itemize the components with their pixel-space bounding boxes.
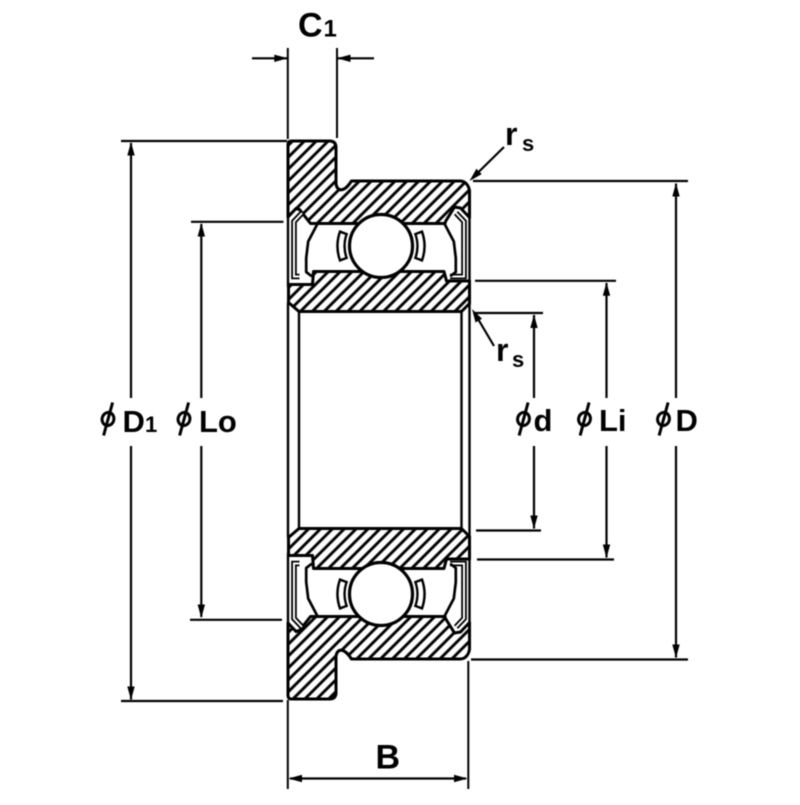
- cage pocket arc (bottom right): [418, 580, 421, 609]
- svg-text:s: s: [512, 347, 524, 372]
- ball (bottom): [350, 563, 413, 626]
- svg-text:Li: Li: [599, 403, 627, 438]
- phi-Lo extension lines: [191, 221, 284, 223]
- inner ring section (bottom): [289, 529, 470, 569]
- inner ring section (top): [289, 272, 470, 312]
- bore projection line: left chamfer circle: [298, 312, 300, 529]
- svg-text:r: r: [505, 116, 517, 152]
- phi-Lo dimension line + arrows: [200, 224, 202, 398]
- phi-Lo label: [177, 403, 192, 436]
- svg-text:Lo: Lo: [199, 404, 237, 439]
- cage profile (top left): [306, 224, 317, 276]
- svg-text:C: C: [298, 7, 323, 45]
- cage profile (bottom left): [306, 564, 317, 617]
- phi-D1 label: [101, 403, 116, 436]
- shield (bottom right): [450, 564, 464, 628]
- phi-D label: [656, 403, 671, 436]
- phi-Li label: [577, 403, 592, 436]
- svg-text:D: D: [123, 404, 145, 439]
- outer ring section (bottom) with flange: [288, 608, 470, 699]
- shield (top left): [294, 213, 302, 277]
- phi-Li extension lines: [475, 280, 616, 282]
- cage profile (bottom right): [445, 564, 456, 617]
- outer ring section (top) with flange: [288, 141, 470, 232]
- phi-d extension lines: [475, 312, 543, 314]
- face line segments (left, top bearing): [287, 215, 289, 287]
- B dimension line + arrows: [290, 777, 466, 779]
- cage pocket arc (top right): [418, 232, 421, 261]
- cage pocket arc (bottom left): [341, 580, 344, 609]
- phi-D1 extension lines: [121, 140, 287, 142]
- face line segments (right, top bearing): [468, 216, 470, 283]
- C1 extension lines: [287, 48, 289, 139]
- svg-text:s: s: [522, 131, 534, 156]
- bore projection line: right chamfer circle: [460, 312, 462, 529]
- B extension lines: [287, 700, 289, 789]
- svg-text:B: B: [376, 739, 401, 777]
- svg-text:d: d: [534, 403, 553, 438]
- cage profile (top right): [445, 224, 456, 276]
- svg-text:D: D: [676, 403, 698, 438]
- r_s leader (bore corner): [475, 313, 495, 346]
- phi-Li dimension line + arrows: [605, 283, 607, 398]
- svg-text:r: r: [496, 332, 508, 368]
- shield (top right): [450, 213, 464, 277]
- phi-d label: [516, 403, 531, 436]
- phi-D1 dimension line + arrows: [130, 143, 132, 398]
- r_s leader (OD corner): [473, 147, 504, 178]
- cage pocket arc (top left): [341, 232, 344, 261]
- svg-text:1: 1: [145, 412, 157, 437]
- ball (top): [350, 215, 413, 278]
- phi-D dimension line + arrows: [675, 184, 677, 399]
- svg-text:1: 1: [324, 16, 337, 43]
- C1 dimension line + arrows: [252, 57, 287, 59]
- bore projection line: right face circle: [468, 304, 470, 537]
- bore projection line: left face circle: [287, 303, 289, 538]
- phi-D extension lines: [473, 180, 688, 182]
- shield (bottom left): [294, 564, 302, 628]
- phi-d dimension line + arrows: [533, 315, 535, 398]
